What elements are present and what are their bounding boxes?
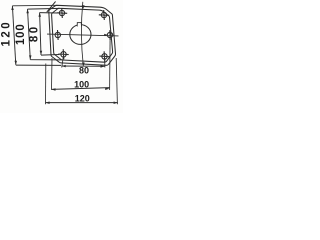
svg-text:80: 80 bbox=[79, 65, 89, 75]
svg-text:100: 100 bbox=[74, 79, 89, 89]
svg-text:80: 80 bbox=[28, 25, 40, 43]
svg-text:120: 120 bbox=[0, 20, 12, 47]
svg-text:120: 120 bbox=[75, 93, 90, 103]
svg-text:100: 100 bbox=[15, 23, 27, 45]
